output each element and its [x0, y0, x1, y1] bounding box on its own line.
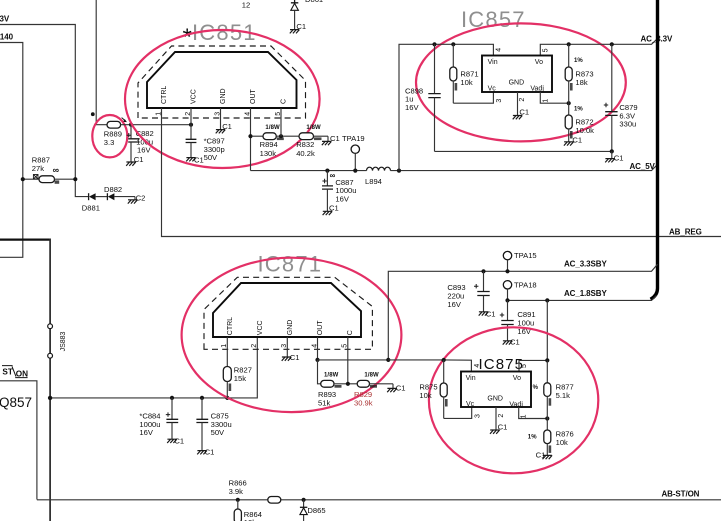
svg-text:ST: ST [2, 368, 12, 377]
IC871 body [213, 283, 361, 337]
svg-text:IC871: IC871 [258, 252, 323, 277]
test point TPA19 [342, 134, 365, 170]
node TPA18/C891 junction [505, 298, 509, 302]
svg-text:GND: GND [287, 320, 294, 336]
node C898 top junction [432, 42, 436, 46]
svg-text:C1: C1 [222, 122, 232, 131]
resistor R877 [533, 360, 574, 418]
resistor R832 [296, 125, 328, 158]
svg-text:AB-ST/ON: AB-ST/ON [662, 490, 700, 499]
svg-text:50V: 50V [211, 428, 225, 437]
svg-text:TPA18: TPA18 [514, 281, 537, 290]
svg-text:D865: D865 [307, 506, 325, 515]
svg-text:C1: C1 [536, 450, 546, 459]
svg-text:Q857: Q857 [0, 395, 32, 410]
ground C1 under D861 [290, 30, 300, 34]
svg-text:5: 5 [521, 364, 528, 368]
resistor R827 on CTRL pin [223, 337, 252, 398]
wire pin4 OUT stub down to output net [250, 108, 252, 171]
svg-text:AC_1.8SBY: AC_1.8SBY [564, 289, 607, 298]
svg-text:TPA19: TPA19 [342, 134, 365, 143]
ground C1 under C884 [167, 436, 184, 445]
svg-text:C1: C1 [510, 337, 520, 346]
wire pin3 GND stub [220, 108, 222, 130]
svg-text:Vo: Vo [535, 59, 543, 66]
wire net 3.3V top-left [0, 25, 88, 197]
svg-text:Vin: Vin [488, 59, 498, 66]
svg-text:330u: 330u [619, 120, 636, 129]
svg-text:C1: C1 [205, 448, 215, 457]
svg-text:1%: 1% [574, 107, 583, 113]
svg-text:3.9k: 3.9k [229, 487, 244, 496]
op-amp/regulator IC851 title [183, 20, 257, 51]
svg-text:50V: 50V [204, 153, 218, 162]
svg-text:1%: 1% [528, 434, 537, 440]
resistor R876 [528, 419, 574, 456]
node C884 junction [170, 396, 174, 400]
wire GND pin stub IC871 [286, 337, 288, 357]
node IC875 output junction [545, 358, 549, 362]
svg-text:16V: 16V [139, 428, 153, 437]
svg-text:16V: 16V [447, 300, 461, 309]
diode D882 [104, 185, 135, 200]
svg-text:Vadj: Vadj [530, 85, 544, 92]
svg-text:VCC: VCC [257, 320, 264, 335]
svg-text:C1: C1 [134, 155, 144, 164]
svg-text:1: 1 [542, 99, 549, 103]
node OUT junction [315, 358, 319, 362]
svg-text:3: 3 [496, 99, 503, 103]
ground C1 after R829 [387, 383, 405, 392]
svg-text:OUT: OUT [250, 89, 257, 105]
svg-text:5: 5 [543, 48, 550, 52]
svg-text:∞: ∞ [53, 165, 60, 175]
wire IC875 GND stub [495, 407, 497, 430]
ground C2 [128, 194, 146, 204]
svg-text:Vadj: Vadj [509, 401, 523, 408]
svg-text:3: 3 [475, 414, 482, 418]
svg-text:C1: C1 [396, 383, 406, 392]
node 1.8V riser junction [545, 298, 549, 302]
svg-text:Vc: Vc [488, 85, 497, 92]
node standby/R827 junction at x50 [48, 396, 52, 400]
resistor R889 [104, 118, 127, 147]
wire R871 to Vc pin [453, 92, 493, 103]
svg-text:CTRL: CTRL [161, 86, 168, 104]
svg-text:JS883: JS883 [60, 331, 67, 351]
svg-text:C1: C1 [572, 136, 582, 145]
wire pin2 VCC stub [190, 108, 192, 125]
wire IC857 input net (AC_5V riser and Vin top wire) [399, 44, 493, 170]
node ST\ON label [2, 366, 28, 379]
svg-text:2: 2 [519, 98, 526, 102]
resistor R893 [318, 360, 358, 408]
svg-text:D882: D882 [104, 185, 122, 194]
svg-text:C2: C2 [136, 194, 146, 203]
ground C1 under C897 [186, 156, 204, 165]
test point TPA18 [503, 281, 536, 301]
svg-text:ON: ON [16, 369, 28, 378]
capacitor C884 [139, 398, 178, 439]
svg-text:130k: 130k [260, 149, 277, 158]
ground C1 under C893 [479, 309, 496, 318]
svg-text:18k: 18k [575, 78, 587, 87]
resistor R871 [450, 44, 479, 103]
svg-text:C1: C1 [614, 153, 624, 162]
svg-text:Vo: Vo [513, 375, 521, 382]
pink ellipse around IC857 [416, 23, 626, 141]
resistor R872 [565, 103, 594, 142]
wire standby vertical with jumper [49, 239, 51, 521]
svg-text:27k: 27k [32, 164, 44, 173]
node R864 junction [236, 498, 240, 502]
capacitor C891 [500, 300, 536, 340]
node R893/R829/C junction [346, 382, 350, 386]
svg-text:1/8W: 1/8W [324, 373, 339, 379]
svg-text:C1: C1 [498, 422, 508, 431]
wire AC_3.3SBY net [318, 264, 658, 360]
svg-text:C1: C1 [519, 107, 529, 116]
svg-text:4: 4 [496, 48, 503, 52]
wire pin1 CTRL down and AB_REG line right [162, 108, 721, 237]
svg-text:1/8W: 1/8W [306, 125, 321, 131]
node stray junction dot [91, 112, 95, 116]
svg-text:IC857: IC857 [461, 7, 526, 32]
inductor L894 [365, 167, 391, 186]
ground C1 under R872 [564, 136, 582, 146]
capacitor C893 [447, 271, 489, 312]
node R894/R832/pin5 junction [279, 134, 283, 138]
resistor R829 [354, 373, 393, 408]
node riser junction [386, 358, 390, 362]
svg-text:Vin: Vin [466, 375, 476, 382]
svg-text:GND: GND [487, 395, 503, 402]
node R871 top junction [451, 42, 455, 46]
svg-text:1140: 1140 [0, 33, 14, 42]
pink ellipse around IC851 [125, 30, 320, 168]
wire GND pin stub [517, 92, 519, 116]
svg-text:12: 12 [242, 0, 250, 9]
IC851 dashed outline [138, 46, 306, 118]
node junction R887 left [21, 177, 25, 181]
svg-text:51k: 51k [318, 399, 330, 408]
svg-text:C1: C1 [290, 353, 300, 362]
node junction R887 right [73, 177, 77, 181]
resistor R894 [252, 125, 299, 158]
node C879 bottom junction [610, 149, 614, 153]
svg-text:16V: 16V [137, 146, 151, 155]
svg-text:C1: C1 [330, 134, 340, 143]
svg-text:C: C [281, 99, 288, 104]
svg-text:1/8W: 1/8W [364, 373, 379, 379]
svg-text:1: 1 [521, 414, 528, 418]
ground C1 under pin3 [216, 122, 232, 133]
wire output net OUT to AC_5V with TPA19 and L894 [251, 164, 658, 170]
svg-text:2: 2 [498, 414, 505, 418]
svg-text:TPA15: TPA15 [514, 251, 537, 260]
svg-text:10.0k: 10.0k [575, 126, 594, 135]
wire net 1140 left [0, 43, 23, 258]
capacitor C898 [405, 44, 441, 151]
ground C1 under R876 [536, 450, 553, 459]
svg-text:1%: 1% [574, 58, 583, 64]
capacitor C887 [322, 171, 357, 212]
node C875 junction [200, 396, 204, 400]
svg-text:4: 4 [474, 364, 481, 368]
wire IC875 output top wire [519, 360, 547, 371]
svg-text:30.9k: 30.9k [354, 399, 373, 408]
node D865 junction [302, 498, 306, 502]
wire standby supply net y=398 [50, 337, 257, 398]
svg-text:AC_3.3SBY: AC_3.3SBY [564, 259, 607, 268]
pink circle around R889 [92, 115, 127, 157]
node C879 top junction [610, 42, 614, 46]
svg-text:C1: C1 [194, 156, 204, 165]
svg-text:AC_5V: AC_5V [630, 162, 656, 171]
capacitor C875 [196, 398, 231, 451]
wire IC857 ground return bottom [435, 150, 612, 152]
svg-text:C: C [347, 330, 354, 335]
capacitor C882 [127, 125, 154, 162]
ground C1 under IC857 GND [513, 107, 529, 119]
IC851 body [147, 52, 297, 108]
svg-text:D861: D861 [305, 0, 323, 4]
ground C1 under IC875 GND [490, 422, 507, 433]
svg-text:OUT: OUT [317, 320, 324, 336]
wire R875 to Vc pin [444, 407, 472, 418]
node TPA19 junction [353, 169, 357, 173]
svg-text:L894: L894 [365, 177, 382, 186]
node C893 junction [481, 269, 485, 273]
svg-text:16V: 16V [335, 195, 349, 204]
node divider junction [567, 101, 571, 105]
svg-text:*: * [183, 24, 192, 51]
svg-text:C1: C1 [329, 204, 339, 213]
svg-text:C1: C1 [486, 309, 496, 318]
svg-text:%: % [533, 385, 539, 391]
capacitor C879 [604, 44, 638, 151]
resistor R866 [229, 479, 281, 504]
resistor R887 [23, 155, 76, 183]
ground C1 under C882 [126, 155, 143, 166]
svg-text:10k: 10k [419, 391, 431, 400]
node C897/VCC junction [189, 123, 193, 127]
svg-text:5.1k: 5.1k [556, 391, 571, 400]
wire standby feed thick left [0, 239, 49, 241]
wire Vadj to divider [540, 92, 568, 103]
svg-text:CTRL: CTRL [227, 317, 234, 335]
svg-text:C1: C1 [174, 436, 184, 445]
node OUT/R894 junction [248, 134, 252, 138]
test point TPA15 [503, 251, 536, 271]
ground C1 under C879 [605, 151, 623, 162]
svg-text:15k: 15k [234, 374, 246, 383]
pink ellipse around IC875 [429, 327, 598, 473]
svg-text:3.3: 3.3 [104, 138, 115, 147]
svg-text:2: 2 [251, 344, 258, 348]
wire riser to IC875 output [546, 300, 548, 360]
svg-text:VCC: VCC [191, 89, 198, 104]
diode D881 [82, 193, 107, 212]
transistor block Q857 box [0, 381, 37, 500]
node R827 junction [225, 396, 229, 400]
node IC875 divider junction [545, 416, 549, 420]
ground C1 under IC871 GND [282, 353, 300, 362]
svg-text:Vc: Vc [466, 401, 475, 408]
wire Vadj to divider [519, 407, 548, 419]
svg-text:GND: GND [220, 88, 227, 104]
svg-text:16V: 16V [405, 103, 419, 112]
svg-text:R887: R887 [32, 155, 50, 164]
wire AC_1.8SBY net [508, 295, 657, 300]
node R873 top junction [567, 42, 571, 46]
svg-text:IC875: IC875 [479, 356, 525, 373]
wire IC857 output top wire to AC_3.3V [540, 39, 657, 56]
node C882 junction [129, 123, 133, 127]
wire C pin stub down [347, 337, 349, 384]
resistor R873 [565, 44, 593, 103]
svg-text:40.2k: 40.2k [296, 149, 315, 158]
zener diode D861 top [291, 0, 323, 31]
ground C1 under C887 [323, 204, 339, 216]
node TPA15 junction [505, 269, 509, 273]
node C887 junction [325, 169, 329, 173]
jumper JS883 [48, 324, 67, 358]
svg-text:1/8W: 1/8W [265, 125, 280, 131]
ground C1 after R832 [322, 134, 340, 145]
svg-text:10k: 10k [460, 78, 472, 87]
wire IC875 input top wire [388, 360, 471, 372]
wire OUT pin down to 3.3SBY net [317, 337, 319, 360]
node R875 top junction [442, 358, 446, 362]
resistor R864 [234, 500, 262, 521]
ground C1 under C891 [503, 337, 520, 346]
node L894/IC857 junction [397, 169, 401, 173]
diode D865 [300, 500, 326, 521]
svg-text:GND: GND [509, 79, 525, 86]
svg-text:AB_REG: AB_REG [669, 228, 702, 237]
regulator IC875 body [461, 372, 531, 408]
capacitor C897 [186, 125, 225, 162]
ground C1 under C875 [197, 448, 214, 457]
wire bottom AB-ST/ON net [37, 499, 721, 501]
IC871 dashed outline [204, 277, 372, 349]
svg-text:10k: 10k [556, 438, 568, 447]
power bus thick vertical [651, 0, 658, 299]
wire vertical feed to R889 [96, 0, 107, 125]
svg-text:3.3V: 3.3V [0, 15, 10, 24]
wire pin5 C stub [280, 108, 282, 136]
wire R889 to C897 node [121, 124, 191, 126]
resistor R875 [419, 360, 447, 418]
svg-text:D881: D881 [82, 203, 100, 212]
regulator IC857 body [482, 56, 552, 93]
pink ellipse around IC871 [182, 258, 402, 412]
